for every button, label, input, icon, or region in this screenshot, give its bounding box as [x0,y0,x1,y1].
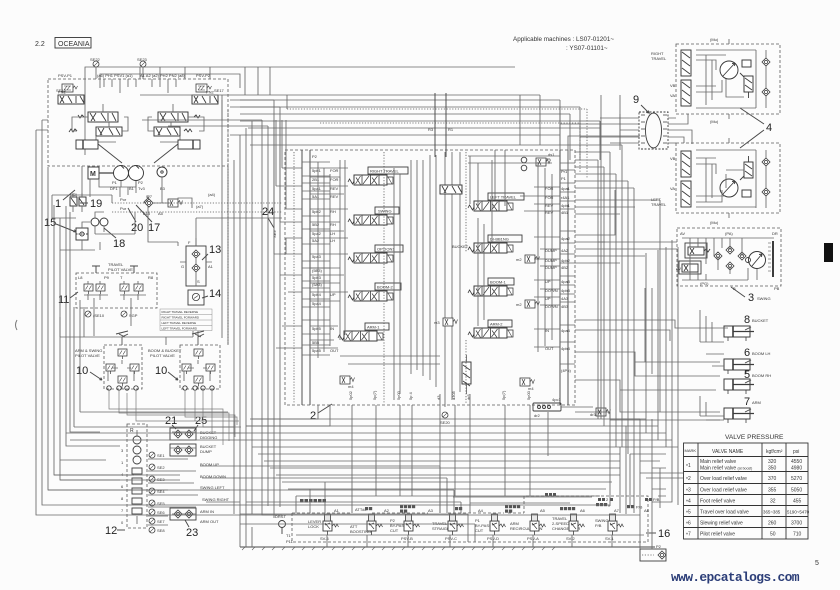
travel pilot sensors [85,311,138,318]
svg-text:SV-1: SV-1 [605,536,614,541]
svg-text:dr3: dr3 [590,412,597,417]
right side vertical bundle [598,145,660,454]
svg-text:d305: d305 [451,390,456,400]
left travel relief checks [762,150,770,208]
item callout 10 right [155,365,178,380]
svg-text:5050: 5050 [791,488,802,494]
svg-text:VALVE PRESSURE: VALVE PRESSURE [725,434,784,441]
pilot relief valve group W7 [143,194,204,216]
spool BOOM-1 [468,278,514,296]
svg-text:*4: *4 [686,499,691,506]
svg-text:365~385: 365~385 [763,510,781,515]
mid horizontal links valve left ports [274,168,302,348]
shuttle port numbers [121,448,124,525]
travel direction label rows [160,309,212,331]
pump top riser drops [140,67,270,95]
svg-text:RH: RH [330,222,336,227]
svg-text:m2: m2 [516,302,522,307]
svg-text:SWING: SWING [757,296,771,301]
svg-text:R3: R3 [428,127,434,132]
item callout 14 [202,288,221,300]
function rows extend right [240,466,475,542]
svg-text:SE23: SE23 [137,57,148,62]
valve internal vertical rails left [318,160,411,374]
svg-text:4B3: 4B3 [561,304,569,309]
lines swivel to travel motors [668,114,692,144]
svg-text:REV: REV [330,186,339,191]
svg-text:5pa3: 5pa3 [312,254,322,259]
svg-text:18: 18 [113,238,125,250]
svg-text:BUCKET: BUCKET [752,318,769,323]
staircase row extensions [610,419,678,468]
right travel relief checks [762,50,770,108]
pilot lines pump to left units [82,166,136,197]
valve internal dash-dot dividers [294,152,466,404]
right travel motor [720,60,751,81]
center-left long verticals [222,100,252,530]
bottom aux valve dr3 right [590,408,611,417]
svg-text:4pa3: 4pa3 [561,279,571,284]
left travel motor dashed enclosure [676,143,780,213]
svg-text:LEFT TRAVEL REVERSE: LEFT TRAVEL REVERSE [162,321,197,325]
svg-text:dr2: dr2 [534,413,541,418]
arm regen japanese label [560,507,575,510]
svg-text:: YS07-01101~: : YS07-01101~ [566,45,608,52]
swing internal bus wires [682,238,774,280]
arm swing pilot dashed enclosure [104,345,142,389]
svg-text:LOCK: LOCK [308,524,319,529]
check valve block item 13 [180,238,214,286]
svg-text:(5B3): (5B3) [312,268,322,273]
svg-text:BOOM RH: BOOM RH [752,373,771,378]
left port ladder rungs [302,162,330,355]
pressure switch column SE1-SE8 [149,452,165,533]
svg-text:5: 5 [744,369,750,381]
left edge paren mark [16,320,18,330]
item callout 1 [55,190,216,210]
spool BOOM-2 [348,283,401,301]
svg-text:P/B: P/B [636,505,643,510]
svg-text:5270: 5270 [791,476,802,482]
item callout 9 [633,94,649,113]
bottom aux valve dr2 [533,397,593,418]
svg-text:Over load relief valve: Over load relief valve [700,488,747,494]
pilot lines to shuttle SE rows [148,459,198,525]
svg-text:2.2: 2.2 [35,41,45,48]
electric motor M [88,167,114,179]
svg-text:G: G [181,264,184,269]
svg-text:320: 320 [768,459,777,465]
item callout 23 [185,520,198,539]
spool SWING [348,207,399,225]
svg-text:ARM-2: ARM-2 [490,322,503,327]
svg-text:(SE10: (SE10 [93,313,105,318]
svg-text:kgf/cm²: kgf/cm² [766,449,783,455]
lower-left cross lines [60,300,240,480]
swing relief valve lower [676,261,701,274]
boom bucket pilot valve label [148,348,182,358]
svg-text:LEFT TRAVEL FORWARD: LEFT TRAVEL FORWARD [162,327,198,331]
spool RIGHT TRAVEL [348,167,408,185]
table header row [685,448,800,455]
travel pilot right valve pair [120,281,146,306]
left regulator group [69,104,128,163]
left inner drop wires [66,206,131,446]
svg-text:VALVE NAME: VALVE NAME [712,449,744,455]
svg-text:A5: A5 [540,508,546,513]
arm swing pilot valve label [75,348,102,358]
solenoid PSV-P1 [56,84,78,93]
svg-text:16: 16 [658,528,670,540]
solenoid valve PSV-D p1 bypass [475,514,506,541]
svg-text:8: 8 [744,314,750,326]
spool ARM-1 [338,323,389,341]
svg-text:(a3): (a3) [70,192,78,197]
right travel label [651,51,667,61]
svg-text:ARM IN: ARM IN [200,509,214,514]
solenoid valve PSV-C travel straight [432,514,464,541]
svg-text:4A2: 4A2 [561,248,569,253]
svg-text:14: 14 [209,288,221,300]
pump port drop lines [96,67,176,93]
right edge scan mark [824,243,833,262]
svg-text:LEFT TRAVEL: LEFT TRAVEL [490,195,517,200]
svg-text:*5: *5 [686,510,691,517]
svg-text:19: 19 [90,198,102,210]
svg-text:TRAVEL: TRAVEL [651,56,667,61]
solenoid internal bus [240,514,644,547]
bottom return bus with hatches [240,547,655,550]
valve group item 18 [91,212,108,234]
main pump P2 [129,166,144,186]
svg-text:Main relief valve: Main relief valve [700,459,736,465]
solenoid valve att boosting [350,514,383,535]
svg-text:260: 260 [768,521,777,527]
svg-text:4pa4: 4pa4 [561,328,571,333]
pilot gear pump P3 [157,167,167,177]
applicable machines note [513,36,614,52]
arm swing joystick handle [116,331,128,345]
swing relief valve left [685,243,710,258]
svg-text:MARK: MARK [685,448,697,453]
travel pilot left valve pair [84,281,108,306]
main valve left port column rail [302,150,310,405]
left outer wire loop E [60,250,120,480]
svg-text:DUMP: DUMP [200,449,212,454]
lever lock japanese label [300,499,326,503]
svg-text:4B2: 4B2 [561,265,569,270]
item callout 10 left [76,365,102,380]
boom bucket joystick handle [192,331,204,345]
main valve left port labels [312,154,339,353]
svg-text:A3: A3 [428,508,434,513]
svg-text:5p(7): 5p(7) [372,390,377,400]
svg-text:PSV-B: PSV-B [401,536,413,541]
right travel motor dashed enclosure [676,44,780,114]
svg-text:PN1: PN1 [58,90,67,95]
svg-text:Pur: Pur [120,206,127,211]
svg-text:SE17: SE17 [214,88,225,93]
table row 7 [686,532,802,539]
svg-text:RIGHT TRAVEL FORWARD: RIGHT TRAVEL FORWARD [162,316,200,320]
svg-text:5p02: 5p02 [348,390,353,400]
svg-text:5pa5: 5pa5 [312,348,322,353]
travel 2speed japanese label [596,503,607,506]
svg-text:9: 9 [633,94,639,106]
item callout 11 [58,292,78,306]
(Mu) labels right travel [710,37,719,124]
swash plate actuator right [178,140,200,149]
item callout 4 with converge arrows [740,108,772,148]
extra lower cross rows right half [453,497,592,503]
boom bucket pilot dashed enclosure [180,345,220,389]
svg-text:DI-BB1NG: DI-BB1NG [490,237,509,242]
att pressure japanese label [355,507,372,512]
svg-text:12: 12 [105,525,117,537]
svg-text:ARM: ARM [752,400,761,405]
Por pilot line [112,197,282,203]
travel alarm label [545,493,660,502]
left travel brake valve [744,156,753,178]
svg-text:(a6) PH1 PSV1 (a1): (a6) PH1 PSV1 (a1) [97,73,133,78]
svg-text:r4A1: r4A1 [561,195,570,200]
svg-text:REV: REV [330,194,339,199]
svg-text:4pb4: 4pb4 [561,346,571,351]
left travel pilot reducing valve [440,185,462,194]
svg-text:3700: 3700 [791,521,802,527]
svg-text:PSV-C: PSV-C [445,536,457,541]
mid-left riser bus [60,307,198,345]
svg-text:A7: A7 [614,508,620,513]
top bundle extra drops [230,95,620,145]
item callout 18 [104,228,125,250]
svg-text:LH: LH [330,238,335,243]
svg-text:m2: m2 [516,257,522,262]
pilot hose bundle from pilot valves down [109,391,241,445]
solenoid valve SV-4 lever lock [308,514,339,541]
svg-text:P2: P2 [138,180,144,185]
pump lower cluster wires [52,95,282,246]
svg-text:(Mu): (Mu) [710,220,719,225]
center bundle horizontal links [142,100,280,126]
bottom aux valve m4 left [340,376,355,389]
svg-text:7: 7 [744,396,750,408]
svg-text:(Mu): (Mu) [710,37,719,42]
main valve to swivel pilot dotted [287,109,587,179]
svg-text:*7: *7 [686,532,691,539]
svg-text:R1: R1 [448,127,454,132]
travel pilot port labels [78,275,154,280]
item callout 3 swing [731,287,771,304]
left outer wire loop D [54,205,180,475]
main valve bottom port ticks [348,390,531,400]
swing motor dashed enclosure [677,228,781,286]
svg-text:(PG): (PG) [700,281,709,286]
svg-text:(PA): (PA) [725,231,733,236]
main control valve outer dashed boundary [285,150,575,405]
svg-text:SWING: SWING [378,209,392,214]
check valve on Por line [145,199,153,207]
right bundle into solenoid row [608,503,652,549]
arm shuttle valve item 23 [170,508,196,520]
lower staircase extra rows [282,482,612,513]
right bank aux valve m2 boom [516,300,540,308]
svg-text:RIGHT TRAVEL: RIGHT TRAVEL [370,169,399,174]
svg-text:4pb3: 4pb3 [561,288,571,293]
svg-text:355: 355 [768,488,777,494]
svg-text:3: 3 [748,292,754,304]
svg-text:4pa1: 4pa1 [561,186,571,191]
svg-text:SGP: SGP [129,313,138,318]
svg-text:SWING LEFT: SWING LEFT [200,485,225,490]
swing gear rack [768,241,773,277]
svg-text:SE22: SE22 [90,57,101,62]
svg-text:5A2: 5A2 [312,238,320,243]
svg-text:B3: B3 [160,186,166,191]
left outer wire loop C [48,167,230,490]
svg-text:P11: P11 [286,539,294,544]
travel japanese label [455,507,462,510]
left proportional valve block PN1 [58,90,84,105]
table row 1 main relief [686,459,802,472]
solenoid valve PSV-B p2 bypass [390,514,420,541]
right port ladder rungs [560,163,575,364]
svg-text:P1: P1 [112,180,118,185]
svg-text:A1 A2 (a2) PH2 PN2 (a8): A1 A2 (a2) PH2 PN2 (a8) [140,73,186,78]
svg-text:5190~5470: 5190~5470 [787,510,810,515]
svg-text:5p 4: 5p 4 [408,391,413,400]
svg-text:SWING RIGHT: SWING RIGHT [202,497,230,502]
svg-text:350: 350 [768,466,777,472]
main valve right port rail [560,150,568,405]
right travel internal wires [696,39,756,119]
swing anti-cavitation checks [714,246,746,270]
sensor SE23 [137,57,148,67]
section title 2.2 OCEANIA [35,38,91,49]
cylinder port stub pairs [700,310,724,420]
left travel counterbalance valve [670,151,691,207]
swash plate actuator left [76,140,98,149]
svg-text:PB: PB [774,286,780,291]
bucket cylinder 8 [724,314,769,341]
bottom sensor SE20 [440,412,451,425]
svg-text:Applicable machines : LS07-012: Applicable machines : LS07-01201~ [513,36,614,43]
item callout 2 [310,404,332,422]
filter item 15 [76,228,88,240]
pump suction strainer [99,177,162,195]
pressure gauge item 14 [188,290,204,305]
svg-text:PSV-P1: PSV-P1 [58,73,73,78]
svg-text:P/B: P/B [653,497,660,502]
svg-text:5pa2: 5pa2 [312,231,322,236]
svg-text:ARM-1: ARM-1 [367,325,380,330]
svg-text:4: 4 [766,122,772,134]
svg-text:A8: A8 [644,508,650,513]
pump unit 1 dashed enclosure [48,79,228,166]
table row 2 [686,476,802,483]
svg-text:R8: R8 [148,275,154,280]
bottom aux valve m4 right [520,378,535,391]
svg-text:OUT: OUT [330,348,339,353]
shuttle block internals [130,428,142,524]
item callout 15 [44,217,76,232]
spool LEFT TRAVEL [468,193,524,211]
Pur pilot line [112,206,282,212]
solenoid valve PSV-A arm recirculation [510,514,546,541]
svg-text:m4: m4 [348,384,354,389]
pump bottom port labels [110,186,166,191]
svg-text:DR: DR [772,231,778,236]
svg-text:M: M [90,171,96,178]
valve bottom port drops to solenoid box [352,434,530,513]
spool ARM-2 [468,320,513,338]
svg-text:OPTION1: OPTION1 [377,247,395,252]
svg-text:Foot relief valve: Foot relief valve [700,499,736,505]
svg-text:4980: 4980 [791,466,802,472]
main pump P1 [112,166,129,186]
svg-text:PILOT VALVE: PILOT VALVE [108,267,133,272]
svg-text:SE2: SE2 [157,465,165,470]
svg-text:5pb3: 5pb3 [312,275,322,280]
svg-text:T1: T1 [286,533,291,538]
svg-text:(a7): (a7) [196,204,204,209]
svg-text:5B2: 5B2 [312,222,320,227]
cylinder feed wires [568,136,728,420]
svg-text:2B1: 2B1 [312,177,320,182]
svg-text:*1: *1 [686,463,691,470]
bucket digging dump labels [200,430,217,454]
shuttle valve block 12 dashed enclosure [127,424,147,528]
svg-text:20: 20 [131,222,143,234]
svg-text:m4: m4 [528,386,534,391]
svg-text:P2: P2 [312,154,318,159]
svg-text:13: 13 [209,244,221,256]
item callout 16 [646,528,670,540]
svg-text:Over load relief valve: Over load relief valve [700,476,747,482]
svg-text:Por: Por [120,197,127,202]
svg-text:BOOM LH: BOOM LH [752,351,771,356]
svg-text:(a4): (a4) [208,192,216,197]
svg-text:5pb2: 5pb2 [312,209,322,214]
svg-text:455: 455 [793,499,802,505]
svg-text:PSV-P2: PSV-P2 [196,73,211,78]
svg-text:710: 710 [793,532,802,538]
main valve bottom relief assembly [462,355,471,394]
port marks A1-A8 [334,508,650,513]
arm swing pilot valves [106,349,139,390]
right bank aux valve m2 bucket [516,255,540,263]
svg-text:5pb5: 5pb5 [312,326,322,331]
svg-text:RH: RH [330,209,336,214]
right travel counterbalance valve [670,50,691,106]
svg-text:4pb1: 4pb1 [561,203,571,208]
right staircase corner verticals [640,240,683,505]
swing motor labels AV PA DR PG B [680,231,780,291]
right bank aux valve m3 arm [434,318,458,326]
svg-text:10: 10 [76,365,88,377]
p2 port box bottom right [640,544,666,561]
svg-text:CUT: CUT [475,528,484,533]
svg-text:A4: A4 [478,508,484,513]
svg-text:*6: *6 [686,521,691,528]
left bank internal verticals [340,155,436,387]
left mid wires around 15-18 [52,218,135,250]
svg-text:5: 5 [815,560,819,567]
svg-text:(Mu): (Mu) [710,119,719,124]
svg-text:370: 370 [768,476,777,482]
svg-text:SV-4: SV-4 [320,536,329,541]
pump unit outer wire loop [85,67,515,155]
